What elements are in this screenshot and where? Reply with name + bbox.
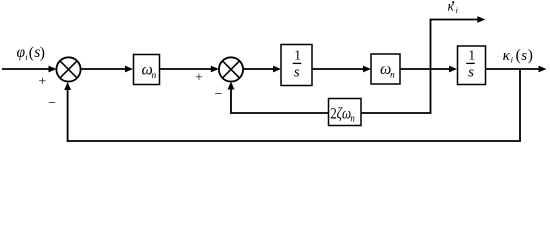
block integrator 1 (1/s) (281, 45, 312, 86)
wire outer feedback: tap down (519, 69, 521, 141)
wire sum1 to block wn1 (81, 68, 127, 70)
wire outer feedback: bottom run (67, 140, 521, 142)
block wn2 (omega_n) (371, 54, 400, 84)
svg-text:+: + (38, 74, 46, 89)
wire outer feedback: up into sum1 (67, 89, 69, 142)
wire 2zeta-wn output to sum2 (231, 112, 329, 114)
wire wn1 to sum2 (160, 68, 212, 70)
wire input arrow (2, 68, 50, 70)
wire down-branch horizontal into 2zeta-wn block (361, 112, 431, 114)
wire up-branch vertical from junction (430, 20, 432, 70)
wire sum2 to integrator 1 (243, 68, 274, 70)
node kappa-dot_i label (448, 0, 458, 15)
svg-text:−: − (215, 87, 223, 102)
svg-text:1: 1 (468, 47, 475, 62)
svg-text:i: i (456, 6, 458, 15)
node kappa_i(s) output label (503, 47, 533, 65)
block integrator 2 (1/s) (458, 46, 486, 85)
svg-text:n: n (152, 71, 157, 81)
svg-text:φ: φ (17, 44, 26, 61)
summing junction 2 (219, 57, 243, 81)
svg-text:): ) (40, 45, 45, 62)
svg-text:): ) (528, 47, 533, 64)
wire down-branch vertical to 2zeta-wn (430, 69, 432, 113)
svg-text:1: 1 (294, 47, 301, 62)
block damping (2 zeta omega_n) (329, 99, 362, 126)
svg-text:κ: κ (503, 48, 511, 64)
wire output arrow (486, 68, 540, 70)
block wn1 (omega_n) (134, 55, 160, 85)
wire wn2 to integrator 2 (400, 68, 450, 70)
svg-text:n: n (390, 70, 395, 80)
svg-text:2: 2 (330, 105, 336, 123)
svg-text:(: ( (516, 47, 521, 64)
svg-text:(: ( (29, 45, 34, 62)
wire integrator1 to wn2 (312, 68, 364, 70)
wire up-branch horizontal with arrow (430, 19, 478, 21)
svg-text:s: s (294, 65, 300, 81)
node phi_i(s) input label (17, 44, 45, 62)
svg-text:+: + (195, 70, 203, 85)
svg-text:s: s (521, 48, 527, 64)
svg-text:n: n (350, 113, 354, 125)
summing junction 1 (56, 57, 80, 81)
svg-text:−: − (48, 96, 56, 111)
svg-text:s: s (468, 65, 474, 81)
